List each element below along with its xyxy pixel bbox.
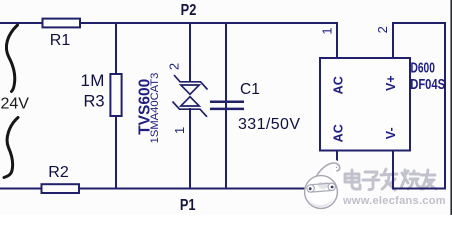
resistor R2 <box>42 184 80 193</box>
svg-text:P2: P2 <box>181 2 197 20</box>
发 <box>384 169 386 174</box>
svg-text:R1: R1 <box>50 32 71 49</box>
svg-text:D600: D600 <box>411 58 435 76</box>
wire: bridge pin3 lead down <box>336 151 338 189</box>
wire: top P2 net, left segment to R1 <box>0 22 43 24</box>
svg-text:1: 1 <box>172 127 187 134</box>
svg-text:R2: R2 <box>48 164 69 181</box>
source squiggle top (24V lead) <box>6 25 17 92</box>
svg-text:2: 2 <box>167 63 182 70</box>
source squiggle bottom (24V lead) <box>4 118 18 178</box>
wire: bottom P1 net, left segment to R2 <box>0 188 42 190</box>
svg-text:C1: C1 <box>240 81 260 98</box>
wire: bridge pin2 to V+ out, corner right <box>393 23 446 59</box>
wire: bottom P1 net from R2 to bridge pin3 <box>79 188 337 190</box>
svg-text:24V: 24V <box>1 96 30 113</box>
wire: R3 branch top <box>115 23 117 74</box>
svg-text:P1: P1 <box>180 197 196 215</box>
wire: bridge pin4 to bottom right corner <box>393 151 446 189</box>
svg-text:V-: V- <box>384 127 398 139</box>
wire: right vertical rail <box>444 23 446 189</box>
wire: R3 branch bottom <box>115 116 117 189</box>
TVS D1 bidirectional suppressor symbol <box>173 75 208 117</box>
bridge rectifier U1 box <box>320 58 410 151</box>
resistor R3 <box>110 74 121 116</box>
svg-text:1: 1 <box>320 27 335 34</box>
svg-text:1M: 1M <box>81 71 105 90</box>
resistor R1 <box>43 19 81 28</box>
svg-text:www.elecfans.com: www.elecfans.com <box>342 195 446 207</box>
友 <box>421 174 435 177</box>
watermark logo (elecfans mouse, white over wires) <box>305 163 344 208</box>
svg-text:R3: R3 <box>84 93 105 111</box>
wire: TVS branch top <box>189 23 191 83</box>
wire: C1 branch <box>225 23 227 189</box>
wire: top P2 net from R1 to bridge pin1, corner down <box>80 23 337 59</box>
svg-text:1SMA40CAT3: 1SMA40CAT3 <box>149 73 161 144</box>
watermark text 电子发烧友 <box>345 169 436 190</box>
电 <box>352 170 360 189</box>
烧 <box>402 171 408 176</box>
wire: TVS branch bottom <box>189 108 191 189</box>
capacitor C1 <box>210 102 244 109</box>
svg-text:V+: V+ <box>384 75 398 91</box>
svg-text:AC: AC <box>332 124 346 142</box>
子 <box>365 172 377 178</box>
svg-text:331/50V: 331/50V <box>238 116 300 133</box>
image right edge border artifact <box>450 0 452 215</box>
svg-text:DF04S: DF04S <box>410 75 445 92</box>
svg-text:2: 2 <box>375 26 390 33</box>
svg-text:AC: AC <box>332 76 346 94</box>
